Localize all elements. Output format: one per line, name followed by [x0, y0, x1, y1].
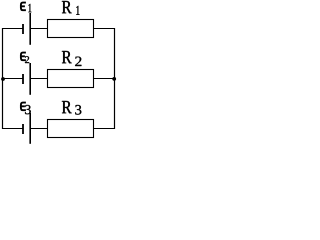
wire branch2 left segment [2, 78, 23, 80]
label R2 [62, 51, 82, 66]
wire branch2 middle segment [30, 78, 48, 80]
wire right rail [114, 28, 116, 129]
resistor R3 [48, 120, 94, 138]
resistor R2 [48, 70, 94, 88]
label epsilon2 [21, 53, 29, 63]
resistor R1 [48, 20, 94, 38]
battery E3 [23, 113, 30, 144]
junction node right rail branch2 [112, 77, 116, 81]
wire branch1 middle segment [30, 28, 48, 30]
wire branch2 right segment [94, 78, 116, 80]
label R3 [62, 101, 81, 115]
label epsilon1 [21, 3, 32, 13]
label epsilon3 [21, 103, 31, 115]
label R1 [62, 1, 80, 15]
wire branch3 middle segment [30, 128, 48, 130]
battery E2 [23, 63, 30, 95]
wire branch1 left segment [2, 28, 23, 30]
battery E1 [23, 13, 30, 45]
wire branch3 left segment [2, 128, 23, 130]
wire branch1 right segment [94, 28, 116, 30]
wire left rail [2, 28, 4, 129]
wire branch3 right segment [94, 128, 116, 130]
junction node left rail branch2 [1, 77, 5, 81]
